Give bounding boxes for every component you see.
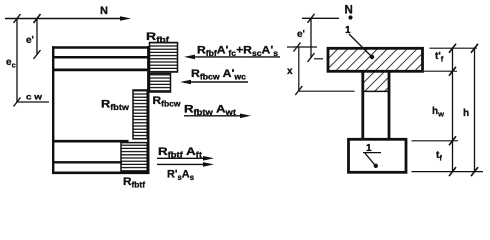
- top flange (hatched): [328, 48, 423, 71]
- svg-text:c w: c w: [26, 92, 42, 102]
- tick on top line: [308, 14, 315, 23]
- web left wall: [361, 71, 364, 139]
- dimension line e' (vertical): [36, 19, 38, 56]
- dimension line x (vertical): [298, 47, 300, 91]
- dot top callout: [370, 55, 374, 59]
- svg-text:N: N: [345, 5, 353, 17]
- bottom edge: [52, 172, 150, 175]
- neutral axis line in web: [362, 90, 391, 92]
- stress block outline: [52, 46, 150, 174]
- hatch block Rfbf: [150, 43, 178, 73]
- left edge: [52, 46, 54, 173]
- underline of bottom callout: [363, 152, 381, 154]
- svg-text:tʹf: tʹf: [435, 51, 444, 64]
- leader line bottom callout: [365, 153, 375, 164]
- dot bottom callout: [374, 164, 378, 168]
- svg-text:h: h: [463, 108, 469, 119]
- small reference line at A's level: [314, 58, 323, 60]
- right dimension connector bottom flange top: [412, 140, 459, 142]
- tick at bottom of e' right: [308, 53, 315, 62]
- dimension line ec (vertical): [16, 19, 18, 103]
- rebar line: [52, 161, 122, 163]
- tick at e' line: [34, 14, 41, 23]
- tick on section top reference: [294, 43, 301, 52]
- resultant arrow Rfbtw Awt (points right): [184, 114, 251, 119]
- svg-text:hw: hw: [432, 106, 444, 119]
- neutral axis reference line: [299, 90, 355, 92]
- dimension line outer (h): [474, 48, 476, 171]
- svg-text:Rfbtf Aft: Rfbtf Aft: [158, 146, 202, 160]
- svg-text:tf: tf: [436, 150, 442, 163]
- svg-text:Rfbcw Aʹwc: Rfbcw Aʹwc: [191, 68, 247, 82]
- svg-text:N: N: [100, 5, 108, 17]
- svg-text:eʹ: eʹ: [26, 35, 34, 46]
- bottom flange: [349, 139, 407, 172]
- hatch block Rfbtw: [133, 90, 147, 139]
- svg-text:Rfbtw: Rfbtw: [101, 99, 130, 113]
- svg-text:Rfbtw Awt: Rfbtw Awt: [184, 104, 236, 118]
- tick at ec line: [14, 14, 21, 23]
- top edge: [52, 46, 150, 49]
- resultant arrow R's As (points right): [157, 162, 214, 167]
- svg-text:eʹ: eʹ: [297, 29, 305, 40]
- dimension line inner (t'f hw tf): [452, 48, 454, 171]
- svg-text:RʹsAs: RʹsAs: [167, 169, 195, 183]
- right dimension connector top (flange top): [430, 47, 478, 49]
- point of application of N (dot): [348, 15, 352, 19]
- resultant arrow Rfbtf Aft (points right): [157, 156, 214, 161]
- force N arrow (top dimension line): [5, 16, 131, 21]
- resultant arrow Rfbcw A'wc (points left): [180, 80, 248, 85]
- tick at bottom of x dimension: [295, 86, 302, 95]
- dimension line e' right (vertical): [310, 18, 312, 57]
- flange bottom line: [52, 69, 150, 72]
- leader line top callout: [349, 34, 371, 56]
- tick at bottom of e': [34, 50, 41, 59]
- resultant arrow Rfbf A'fc + Rsc A's (points left): [184, 55, 280, 60]
- svg-text:x: x: [287, 66, 293, 77]
- tick at cw line: [14, 98, 21, 107]
- svg-text:ec: ec: [6, 57, 16, 70]
- step line: [52, 140, 129, 143]
- right dimension connector bottom: [412, 171, 484, 173]
- right dimension connector flange bottom: [424, 70, 457, 72]
- web compression hatch: [363, 71, 389, 91]
- hatch block Rfbtf: [121, 143, 147, 172]
- svg-text:Rfbcw: Rfbcw: [153, 95, 182, 109]
- svg-text:Rfbtf: Rfbtf: [123, 176, 145, 190]
- svg-text:RfbfAʹfc+RscAʹs: RfbfAʹfc+RscAʹs: [197, 45, 279, 59]
- central vertical line: [147, 46, 149, 173]
- flange inner line: [52, 56, 150, 59]
- svg-text:Rfbf: Rfbf: [146, 31, 170, 45]
- top reference line: [302, 17, 339, 19]
- web right wall: [388, 71, 391, 139]
- dimension line cw (horizontal): [17, 101, 49, 103]
- hatch block Rfbcw: [150, 74, 171, 93]
- section top reference line: [287, 46, 317, 48]
- ticks on right dimensions: [449, 44, 478, 176]
